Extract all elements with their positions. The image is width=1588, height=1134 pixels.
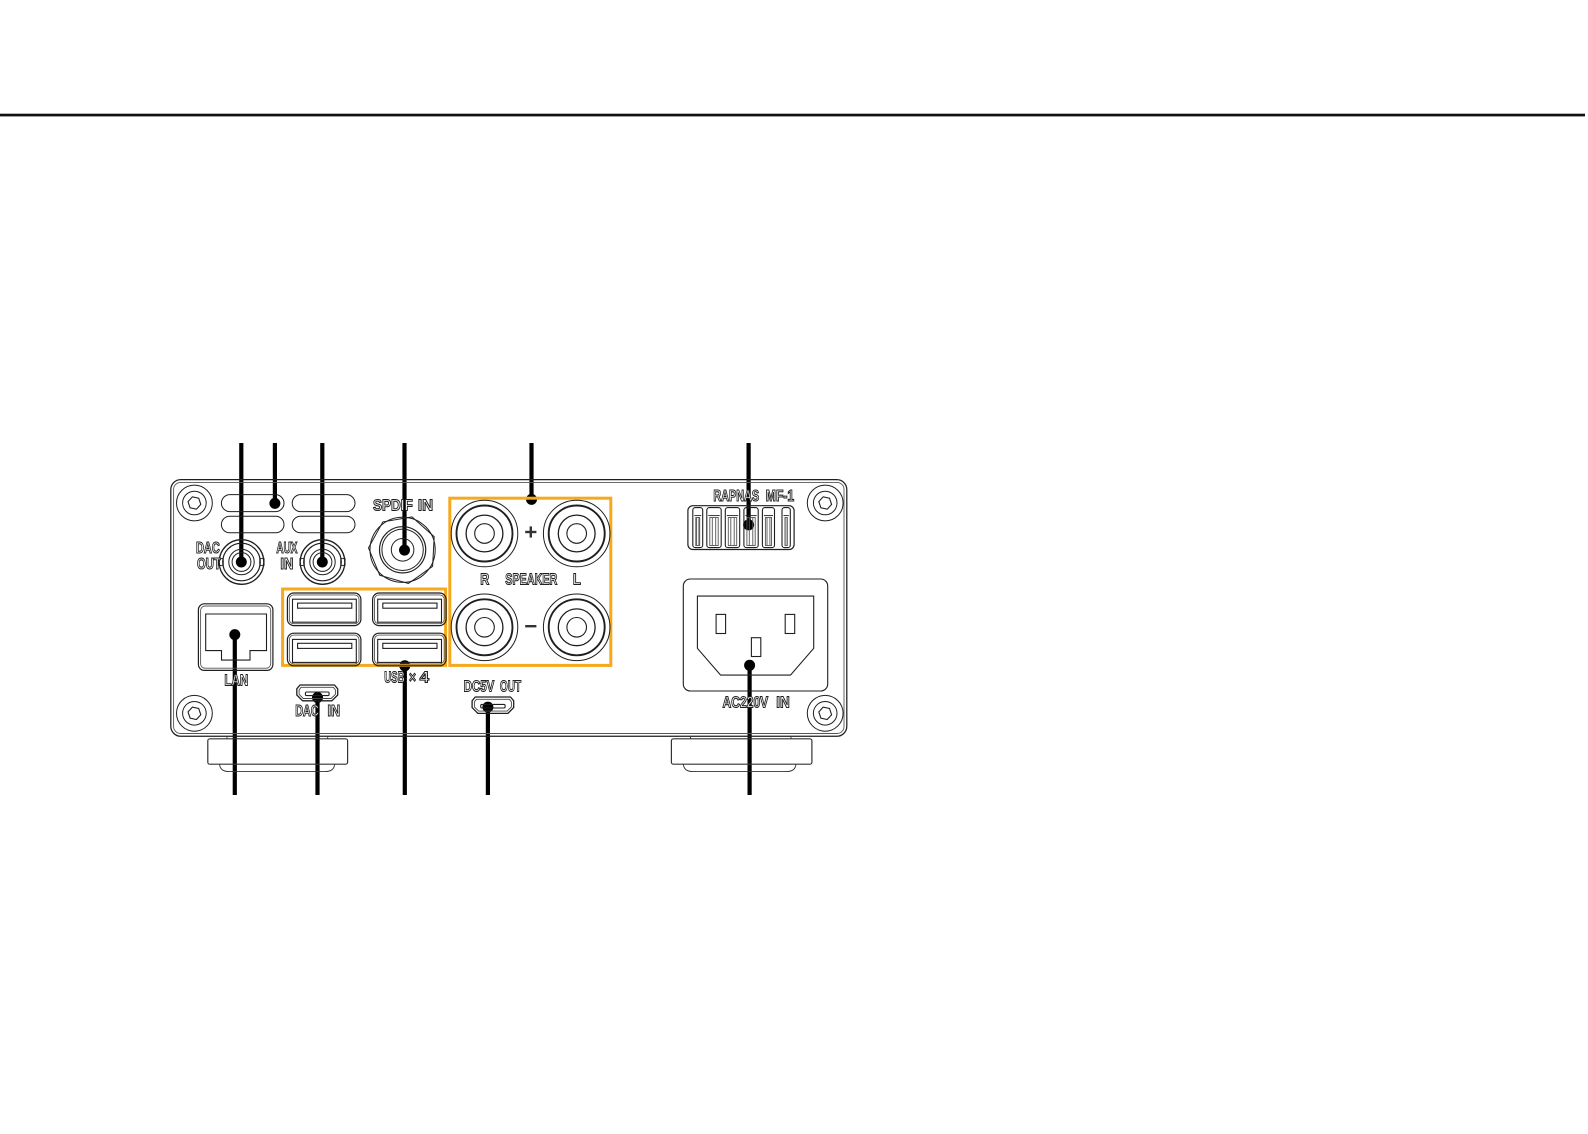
- svg-text:SPDIF: SPDIF: [373, 497, 413, 514]
- svg-text:OUT: OUT: [500, 678, 521, 695]
- svg-text:IN: IN: [328, 703, 341, 720]
- svg-text:DC5V: DC5V: [464, 678, 495, 695]
- svg-text:AC220V: AC220V: [723, 695, 769, 712]
- svg-text:L: L: [573, 571, 581, 588]
- svg-text:DAC: DAC: [295, 703, 319, 720]
- svg-text:DAC: DAC: [196, 540, 220, 557]
- svg-text:OUT: OUT: [197, 556, 221, 573]
- svg-text:IN: IN: [418, 497, 433, 514]
- svg-text:×: ×: [409, 669, 416, 686]
- svg-text:IN: IN: [776, 695, 790, 712]
- svg-text:RAPNAS: RAPNAS: [713, 488, 759, 505]
- svg-text:4: 4: [420, 669, 429, 686]
- svg-text:R: R: [480, 571, 489, 588]
- svg-text:LAN: LAN: [224, 673, 248, 690]
- svg-text:IN: IN: [280, 556, 293, 573]
- svg-text:AUX: AUX: [276, 540, 297, 557]
- svg-text:USB: USB: [384, 669, 404, 686]
- svg-text:MF-1: MF-1: [766, 488, 794, 505]
- svg-text:SPEAKER: SPEAKER: [505, 571, 557, 588]
